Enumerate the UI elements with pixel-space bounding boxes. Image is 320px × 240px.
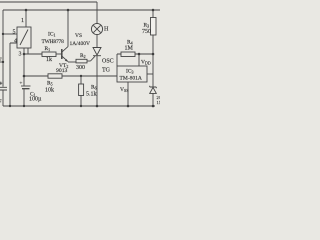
svg-text:15: 15 [157,100,161,105]
svg-text:5: 5 [13,30,16,36]
svg-text:+: + [20,82,23,87]
svg-text:10k: 10k [45,88,54,94]
svg-text:VS: VS [75,33,82,39]
svg-text:R3: R3 [144,23,150,29]
svg-text:IC1: IC1 [48,32,56,38]
svg-text:750: 750 [142,29,151,35]
svg-text:5.1k: 5.1k [86,92,97,98]
svg-text:IC3: IC3 [126,69,134,75]
svg-text:VDD: VDD [141,60,151,66]
svg-text:9013: 9013 [56,68,68,74]
svg-text:3: 3 [19,52,22,58]
svg-text:100µ: 100µ [29,97,42,103]
svg-text:R5: R5 [47,81,53,87]
svg-text:1k: 1k [46,57,52,63]
svg-text:R2: R2 [80,53,86,59]
svg-text:TM-801A: TM-801A [120,76,142,82]
svg-text:4: 4 [14,39,17,45]
svg-text:H: H [104,27,109,33]
svg-text:VSS: VSS [120,87,128,93]
svg-text:R1: R1 [45,46,51,52]
svg-text:1: 1 [21,18,24,24]
svg-text:TWH8778: TWH8778 [42,39,65,45]
svg-text:R6: R6 [91,85,97,91]
svg-text:300: 300 [76,65,85,71]
svg-text:1A/400V: 1A/400V [70,41,91,47]
svg-text:TG: TG [102,68,111,74]
svg-text:1M: 1M [125,46,134,52]
svg-text:OSC: OSC [102,59,114,65]
